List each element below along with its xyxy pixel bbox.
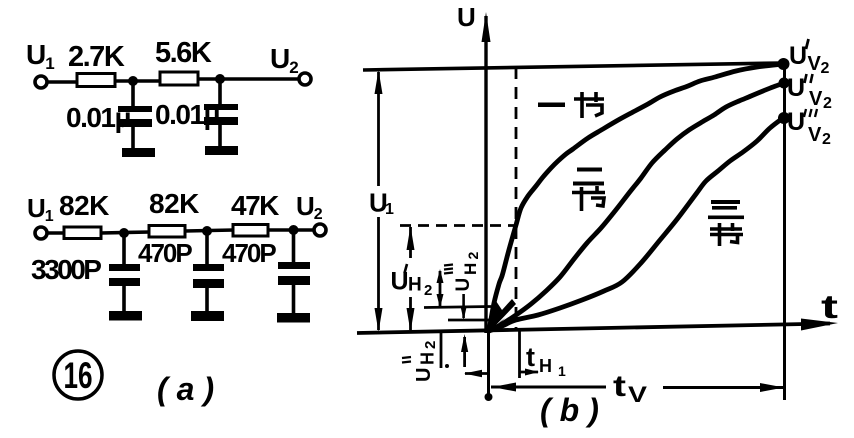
capacitor C2 plates xyxy=(204,104,238,110)
U1 input level line xyxy=(363,63,783,70)
svg-text:82K: 82K xyxy=(149,188,199,219)
node B junction dot xyxy=(215,74,225,84)
svg-text:0.01μ: 0.01μ xyxy=(155,99,219,130)
svg-text:5.6K: 5.6K xyxy=(155,37,212,69)
tV dimension right segment xyxy=(663,386,784,389)
endpoint dot curve 1 xyxy=(778,58,790,70)
right boundary line at tV xyxy=(783,59,786,400)
dashed horizontal U'H2 level xyxy=(400,224,516,227)
label U'V2 xyxy=(789,39,830,77)
svg-text:47K: 47K xyxy=(231,190,279,221)
svg-text:470P: 470P xyxy=(222,238,276,268)
capacitor C3 lead from node C xyxy=(122,233,126,265)
U'''H2 pointer arrow xyxy=(439,271,442,306)
wire input to R3 xyxy=(47,231,65,235)
svg-text:V: V xyxy=(628,382,647,407)
svg-text:t: t xyxy=(821,288,838,325)
figure number 16 circle xyxy=(54,351,102,399)
ground for C4 xyxy=(191,311,224,321)
tH1 right outside arrow xyxy=(520,371,539,374)
tick below axis near U''H2 label xyxy=(440,332,443,369)
capacitor C5 lead to ground xyxy=(292,285,296,314)
curve 1 one-section response xyxy=(489,64,783,331)
tH1 boundary tick xyxy=(518,329,521,378)
resistor R5 47K body xyxy=(233,225,268,237)
svg-text:U: U xyxy=(413,368,435,382)
svg-text:2: 2 xyxy=(821,60,830,77)
svg-text:2: 2 xyxy=(465,252,481,260)
wire R3 to node C xyxy=(101,232,150,233)
svg-text:U: U xyxy=(787,74,804,102)
capacitor C1 plates xyxy=(118,106,152,112)
svg-text:1: 1 xyxy=(558,363,566,379)
terminal U2 output xyxy=(299,73,311,85)
svg-text:2: 2 xyxy=(422,341,439,349)
terminal U1 input xyxy=(35,76,47,88)
label U'H2 xyxy=(387,258,434,297)
svg-text:H: H xyxy=(461,263,480,275)
svg-text:H: H xyxy=(408,275,422,296)
svg-text:2: 2 xyxy=(424,282,432,299)
svg-text:16: 16 xyxy=(64,355,93,396)
svg-text:V: V xyxy=(808,53,822,75)
wire R4 to node D xyxy=(185,230,234,231)
resistor R2 5.6K body xyxy=(160,72,198,85)
wire R1 to node A xyxy=(115,79,162,83)
curve 3 three-section response xyxy=(489,118,783,331)
label U''H2 rotated below axis xyxy=(402,341,439,382)
svg-text:H: H xyxy=(418,352,438,365)
endpoint dot curve 2 xyxy=(779,78,790,89)
U'H2 dimension arrow xyxy=(409,227,412,330)
ground for C1 xyxy=(122,148,155,157)
svg-text:2.7K: 2.7K xyxy=(68,41,125,73)
pointer to U''H2 level xyxy=(462,294,465,318)
svg-text:U: U xyxy=(457,2,476,32)
capacitor C5 plates xyxy=(278,262,310,269)
label yi-jie char jie xyxy=(574,92,604,118)
capacitor C3 plates xyxy=(109,264,140,271)
capacitor C5 lead from node E xyxy=(292,230,296,263)
y axis U xyxy=(484,16,487,333)
svg-text:U1: U1 xyxy=(27,193,54,225)
svg-text:U1: U1 xyxy=(26,39,54,73)
capacitor C3 lead to ground xyxy=(122,286,126,312)
label san-jie (three sections) char san xyxy=(708,200,744,219)
ground for C2 xyxy=(205,146,238,155)
label U'''V2 xyxy=(787,108,831,148)
node C junction dot xyxy=(119,228,129,238)
svg-text:t: t xyxy=(526,342,535,372)
svg-text:0.01μ: 0.01μ xyxy=(66,102,130,133)
label er-jie char jie xyxy=(572,186,605,211)
U'''H2 level line xyxy=(424,307,491,308)
svg-text:(b): (b) xyxy=(540,392,608,428)
wire R5 to node E xyxy=(268,228,315,232)
svg-text:H: H xyxy=(539,356,552,376)
svg-text:(a): (a) xyxy=(157,371,223,407)
svg-text:U2: U2 xyxy=(296,191,323,223)
origin convergence wedge xyxy=(487,299,516,332)
curve 2 two-section response xyxy=(489,83,784,331)
svg-text:2: 2 xyxy=(822,131,831,148)
svg-text:U: U xyxy=(787,108,804,136)
U''H2 up arrow below axis xyxy=(463,337,466,367)
terminal U2 output bottom xyxy=(314,224,326,236)
svg-text:2: 2 xyxy=(823,95,832,112)
label U'''H2 rotated xyxy=(444,252,481,292)
svg-text:82K: 82K xyxy=(59,190,109,221)
endpoint dot curve 3 xyxy=(778,112,790,124)
node E junction dot xyxy=(289,225,299,235)
svg-text:V: V xyxy=(808,124,822,146)
tH1 left outside arrow xyxy=(465,372,490,375)
resistor R4 82K body xyxy=(149,226,185,238)
resistor R1 2.7K body xyxy=(77,74,115,87)
label yi-jie (one section) char yi xyxy=(538,103,565,108)
svg-text:U: U xyxy=(789,42,806,70)
t axis xyxy=(357,324,830,334)
svg-text:470P: 470P xyxy=(138,238,192,268)
wire R2 to node B xyxy=(198,77,300,81)
svg-text:3300P: 3300P xyxy=(31,254,101,285)
ground for C3 xyxy=(109,311,142,321)
capacitor C1 lead to ground xyxy=(131,126,135,149)
label U''V2 xyxy=(787,74,832,112)
wire input to R1 xyxy=(47,80,78,84)
U''H2 level line xyxy=(448,319,492,322)
svg-text:1: 1 xyxy=(385,201,394,218)
label san-jie char jie xyxy=(710,223,743,246)
svg-text:V: V xyxy=(809,88,823,110)
y axis extension below t axis xyxy=(487,330,490,394)
resistor R3 82K body xyxy=(64,227,101,239)
svg-text:U: U xyxy=(453,278,474,292)
capacitor C4 plates xyxy=(193,264,224,271)
label er-jie (two sections) char er xyxy=(573,168,604,186)
label U1 dimension xyxy=(364,186,393,217)
dashed vertical at tH1 xyxy=(515,67,518,331)
capacitor C2 lead from node B xyxy=(218,79,222,105)
ground for C5 xyxy=(277,313,310,323)
capacitor C1 lead from node A xyxy=(131,81,135,107)
svg-text:t: t xyxy=(613,370,626,403)
node D junction dot xyxy=(202,226,212,236)
capacitor C4 lead to ground xyxy=(205,288,209,312)
tV dimension left segment xyxy=(491,386,606,389)
capacitor C2 lead to ground xyxy=(218,124,222,147)
U1 dimension arrow xyxy=(377,72,380,330)
svg-text:U2: U2 xyxy=(270,43,298,77)
node A junction dot xyxy=(128,76,138,86)
terminal U1 input bottom xyxy=(35,227,47,239)
capacitor C4 lead from node D xyxy=(205,231,209,265)
